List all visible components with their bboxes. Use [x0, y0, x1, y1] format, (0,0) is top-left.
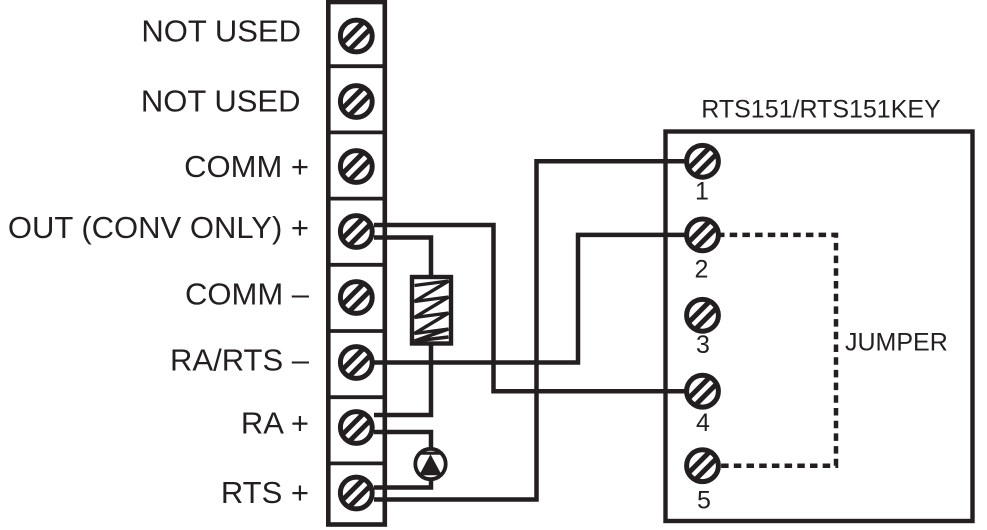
svg-text:1: 1: [695, 178, 709, 206]
svg-text:RTS151/RTS151KEY: RTS151/RTS151KEY: [701, 96, 941, 124]
svg-text:COMM –: COMM –: [185, 277, 310, 312]
svg-text:NOT USED: NOT USED: [141, 83, 301, 118]
svg-text:COMM +: COMM +: [184, 149, 309, 184]
svg-text:5: 5: [697, 487, 711, 515]
svg-text:RA +: RA +: [241, 406, 309, 441]
svg-text:3: 3: [696, 331, 710, 359]
svg-text:4: 4: [696, 409, 710, 437]
svg-text:2: 2: [695, 256, 709, 284]
svg-text:NOT USED: NOT USED: [141, 14, 301, 49]
svg-text:RA/RTS –: RA/RTS –: [170, 343, 310, 378]
svg-text:OUT (CONV ONLY) +: OUT (CONV ONLY) +: [8, 210, 309, 245]
svg-text:RTS +: RTS +: [221, 475, 309, 510]
svg-text:JUMPER: JUMPER: [845, 329, 948, 357]
